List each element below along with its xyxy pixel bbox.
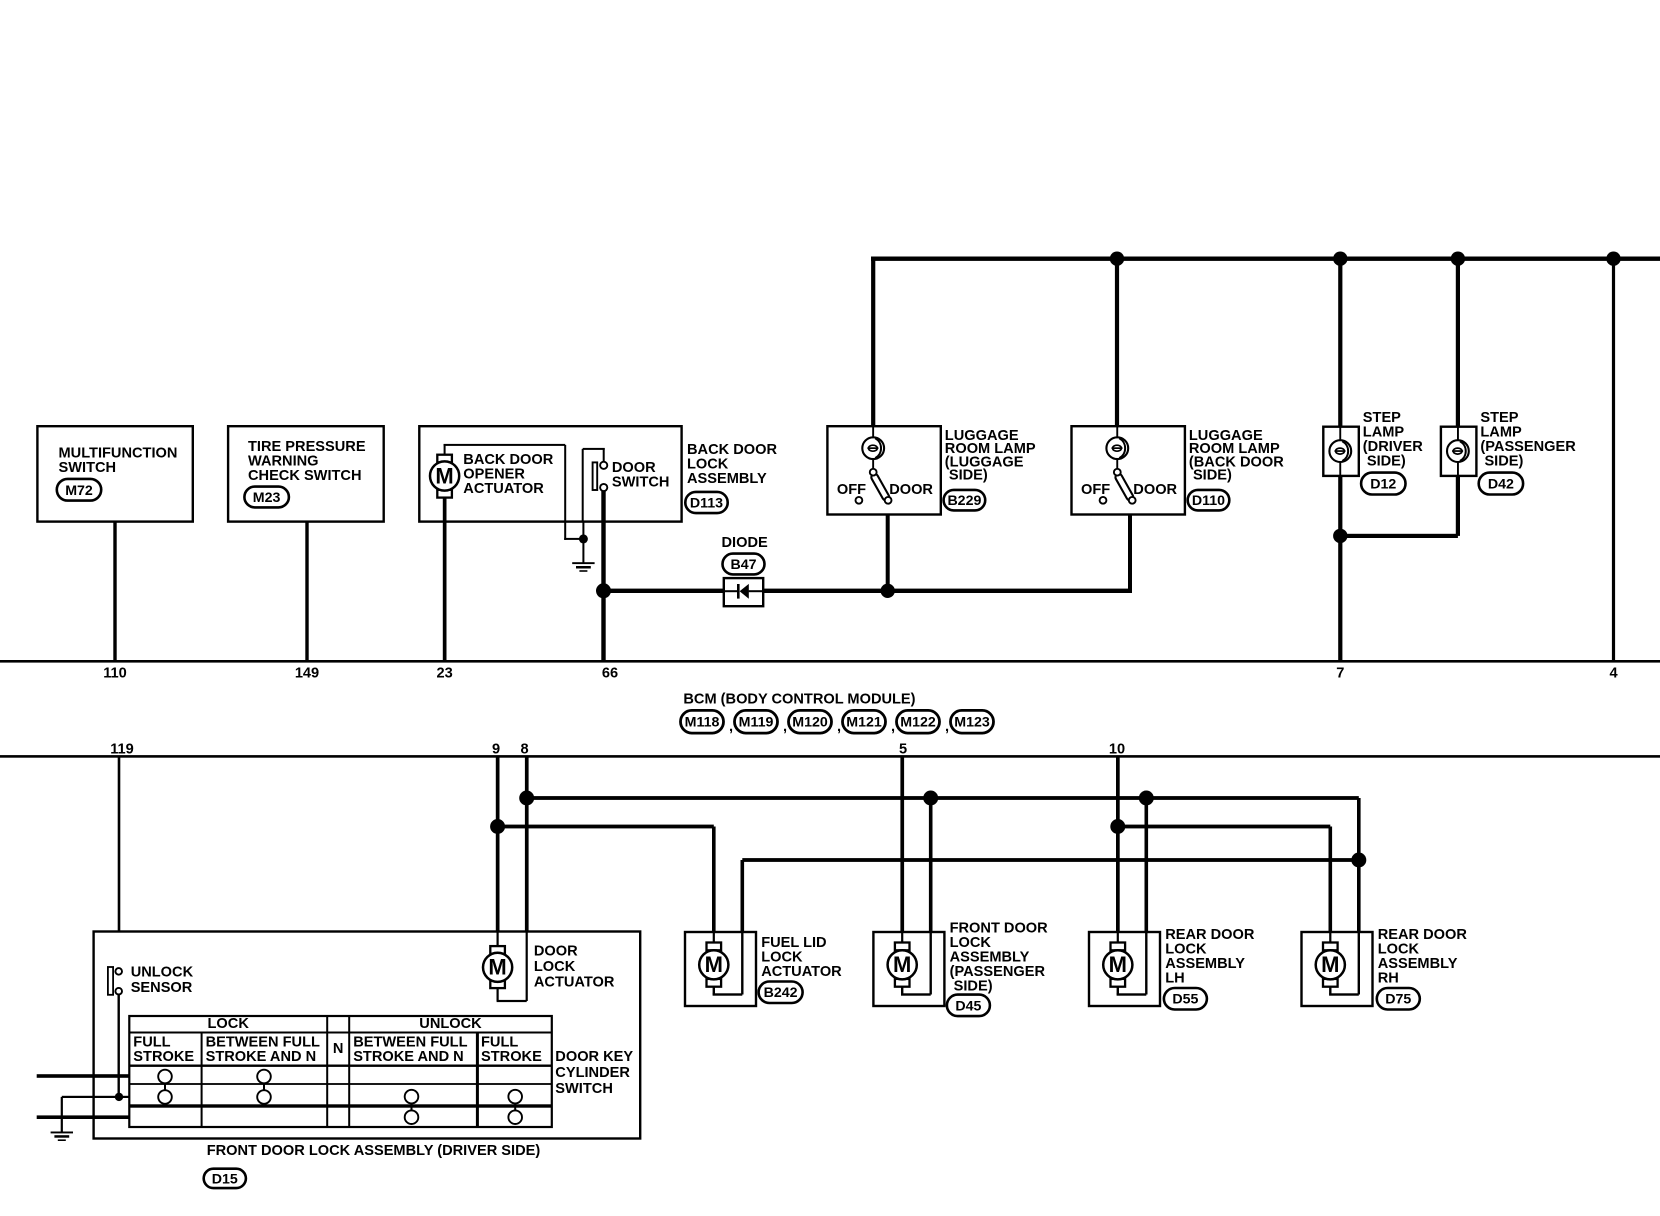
svg-text:B242: B242 <box>764 985 798 1001</box>
svg-text:M: M <box>488 955 506 980</box>
svg-text:OFF: OFF <box>1081 482 1110 498</box>
svg-text:D75: D75 <box>1385 992 1411 1008</box>
svg-text:BCM (BODY CONTROL MODULE): BCM (BODY CONTROL MODULE) <box>683 692 915 708</box>
svg-text:119: 119 <box>110 741 134 757</box>
svg-text:RH: RH <box>1378 971 1399 987</box>
svg-text:8: 8 <box>520 741 528 757</box>
svg-text:STROKE: STROKE <box>133 1049 194 1065</box>
svg-text:M118: M118 <box>685 715 720 731</box>
svg-text:STROKE: STROKE <box>481 1049 542 1065</box>
svg-text:9: 9 <box>492 741 500 757</box>
svg-text:OFF: OFF <box>837 482 866 498</box>
svg-text:ACTUATOR: ACTUATOR <box>534 974 615 990</box>
svg-text:SIDE): SIDE) <box>945 468 988 484</box>
svg-text:SWITCH: SWITCH <box>555 1081 613 1097</box>
svg-text:M121: M121 <box>846 715 882 731</box>
svg-text:,: , <box>945 719 949 735</box>
svg-text:SWITCH: SWITCH <box>59 460 117 476</box>
svg-text:CHECK SWITCH: CHECK SWITCH <box>248 468 362 484</box>
svg-text:,: , <box>729 719 733 735</box>
svg-text:M120: M120 <box>792 715 828 731</box>
svg-text:D110: D110 <box>1192 493 1225 509</box>
svg-text:STROKE AND N: STROKE AND N <box>353 1049 464 1065</box>
svg-text:ASSEMBLY: ASSEMBLY <box>687 471 767 487</box>
svg-text:10: 10 <box>1109 741 1125 757</box>
svg-text:66: 66 <box>602 666 618 682</box>
svg-text:SENSOR: SENSOR <box>131 980 193 996</box>
svg-text:ACTUATOR: ACTUATOR <box>761 964 842 980</box>
svg-text:LH: LH <box>1165 971 1184 987</box>
svg-text:D55: D55 <box>1172 992 1198 1008</box>
svg-text:M: M <box>893 952 911 977</box>
svg-text:D113: D113 <box>690 496 723 512</box>
svg-text:SWITCH: SWITCH <box>612 475 670 491</box>
svg-text:149: 149 <box>295 666 319 682</box>
svg-text:B47: B47 <box>730 557 756 573</box>
svg-text:M23: M23 <box>253 490 281 506</box>
svg-text:SIDE): SIDE) <box>950 978 993 994</box>
svg-text:M119: M119 <box>739 715 774 731</box>
svg-text:M123: M123 <box>954 715 990 731</box>
svg-text:5: 5 <box>899 741 907 757</box>
svg-text:M72: M72 <box>65 483 93 499</box>
svg-text:DOOR: DOOR <box>889 482 933 498</box>
svg-text:110: 110 <box>103 666 127 682</box>
svg-text:D45: D45 <box>955 998 981 1014</box>
svg-text:UNLOCK: UNLOCK <box>419 1016 482 1032</box>
svg-text:CYLINDER: CYLINDER <box>555 1065 630 1081</box>
svg-text:M122: M122 <box>900 715 936 731</box>
svg-text:UNLOCK: UNLOCK <box>131 965 194 981</box>
svg-text:SIDE): SIDE) <box>1189 468 1232 484</box>
svg-text:M: M <box>435 463 453 488</box>
svg-text:STROKE AND N: STROKE AND N <box>206 1049 317 1065</box>
svg-text:ACTUATOR: ACTUATOR <box>463 481 544 497</box>
svg-text:FRONT DOOR LOCK ASSEMBLY (DRIV: FRONT DOOR LOCK ASSEMBLY (DRIVER SIDE) <box>207 1143 541 1159</box>
svg-text:23: 23 <box>436 666 452 682</box>
svg-text:DOOR KEY: DOOR KEY <box>555 1049 633 1065</box>
svg-text:M: M <box>1321 952 1339 977</box>
svg-text:M: M <box>1109 952 1127 977</box>
svg-text:,: , <box>783 719 787 735</box>
svg-text:D15: D15 <box>212 1171 238 1187</box>
svg-text:M: M <box>705 952 723 977</box>
svg-text:LOCK: LOCK <box>534 959 576 975</box>
svg-text:4: 4 <box>1609 666 1618 682</box>
svg-text:7: 7 <box>1336 666 1344 682</box>
svg-text:N: N <box>333 1041 344 1057</box>
svg-text:DIODE: DIODE <box>722 535 768 551</box>
svg-text:,: , <box>837 719 841 735</box>
svg-text:SIDE): SIDE) <box>1363 453 1406 469</box>
svg-text:B229: B229 <box>947 493 981 509</box>
svg-text:SIDE): SIDE) <box>1480 453 1523 469</box>
svg-text:D42: D42 <box>1488 477 1514 493</box>
svg-text:LOCK: LOCK <box>208 1016 250 1032</box>
svg-text:,: , <box>891 719 895 735</box>
svg-text:D12: D12 <box>1370 477 1396 493</box>
svg-text:DOOR: DOOR <box>534 944 578 960</box>
svg-text:DOOR: DOOR <box>1133 482 1177 498</box>
